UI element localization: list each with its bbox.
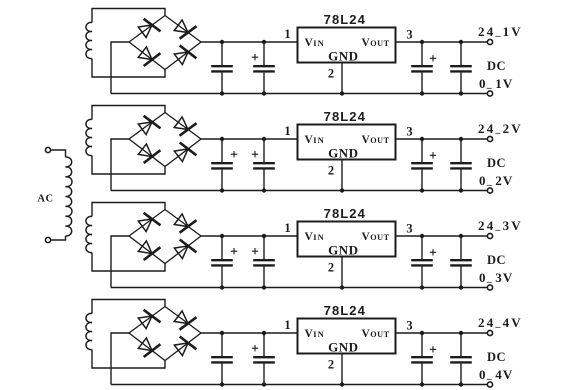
svg-text:GND: GND	[328, 242, 358, 257]
svg-text:IN: IN	[313, 232, 324, 242]
svg-text:OUT: OUT	[370, 136, 390, 145]
svg-text:GND: GND	[328, 48, 358, 63]
svg-text:1: 1	[284, 318, 290, 332]
svg-text:78L24: 78L24	[324, 109, 366, 124]
svg-text:1: 1	[284, 221, 290, 235]
svg-text:OUT: OUT	[370, 330, 390, 339]
svg-text:78L24: 78L24	[324, 303, 366, 318]
svg-text:DC: DC	[487, 156, 506, 170]
svg-text:3: 3	[406, 222, 412, 236]
svg-text:GND: GND	[328, 339, 358, 354]
svg-text:0– 2V: 0– 2V	[479, 173, 513, 191]
svg-text:IN: IN	[313, 135, 324, 145]
svg-text:V: V	[305, 328, 314, 340]
svg-text:1: 1	[284, 124, 290, 138]
svg-text:2: 2	[328, 261, 334, 275]
svg-text:GND: GND	[328, 145, 358, 160]
svg-text:AC: AC	[37, 194, 53, 205]
svg-text:3: 3	[406, 28, 412, 42]
svg-text:3: 3	[406, 125, 412, 139]
svg-text:IN: IN	[313, 38, 324, 48]
svg-text:IN: IN	[313, 329, 324, 339]
svg-text:2: 2	[328, 67, 334, 81]
svg-text:V: V	[305, 231, 314, 243]
svg-text:3: 3	[406, 319, 412, 333]
svg-text:OUT: OUT	[370, 39, 390, 48]
svg-text:78L24: 78L24	[324, 12, 366, 27]
svg-text:DC: DC	[487, 59, 506, 73]
svg-text:2: 2	[328, 164, 334, 178]
svg-text:V: V	[362, 134, 371, 146]
svg-text:2: 2	[328, 358, 334, 372]
svg-text:V: V	[305, 37, 314, 49]
svg-text:0– 4V: 0– 4V	[479, 367, 513, 385]
svg-text:V: V	[362, 37, 371, 49]
svg-text:V: V	[362, 328, 371, 340]
svg-text:78L24: 78L24	[324, 206, 366, 221]
svg-text:0– 3V: 0– 3V	[479, 270, 513, 288]
svg-text:DC: DC	[487, 253, 506, 267]
svg-text:V: V	[362, 231, 371, 243]
svg-text:1: 1	[284, 27, 290, 41]
svg-text:DC: DC	[487, 350, 506, 364]
svg-text:OUT: OUT	[370, 233, 390, 242]
svg-text:V: V	[305, 134, 314, 146]
svg-text:0– 1V: 0– 1V	[479, 76, 513, 94]
